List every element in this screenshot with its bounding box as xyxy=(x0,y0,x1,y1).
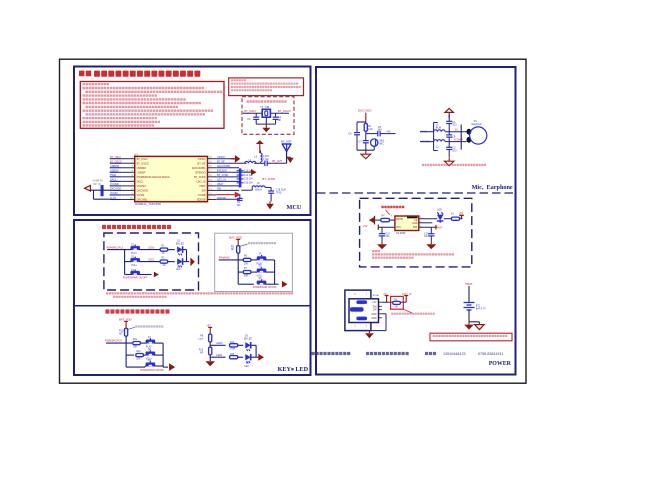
wire mic ground bus xyxy=(357,149,374,151)
USB connector J2 shell xyxy=(345,290,371,331)
svg-text:R12: R12 xyxy=(136,350,141,353)
charger dashed box xyxy=(360,198,472,267)
svg-text:R11: R11 xyxy=(133,338,138,341)
dashed divider between Mic and Power xyxy=(317,192,515,194)
svg-text:NF: NF xyxy=(119,332,123,335)
node LDO_IN label xyxy=(402,292,411,302)
svg-text:0R: 0R xyxy=(395,305,398,308)
node BT_ANT on wire xyxy=(272,159,282,163)
KEY scheme1 dashed box xyxy=(104,233,199,290)
resistor R11 scheme3 row1 xyxy=(133,338,147,349)
annotation text R3 xyxy=(391,313,435,315)
arrow VSSIO xyxy=(235,155,240,163)
svg-text:10K: 10K xyxy=(244,262,249,265)
svg-text:BT_RF: BT_RF xyxy=(198,161,207,165)
wire scheme3 bus xyxy=(106,343,145,367)
inductor L1 xyxy=(245,158,256,163)
svg-text:MIC: MIC xyxy=(387,130,392,133)
decoupling capacitor bank C13-C15 xyxy=(237,169,254,188)
svg-text:10u: 10u xyxy=(424,235,429,238)
svg-text:+5V: +5V xyxy=(459,211,464,215)
svg-text:DAC/VBL: DAC/VBL xyxy=(137,198,148,202)
crystal Y1 label xyxy=(260,105,270,109)
resistor R15 LED row2 xyxy=(230,354,244,359)
svg-text:VOL+: VOL+ xyxy=(131,264,138,267)
svg-text:VSSIO: VSSIO xyxy=(198,157,206,161)
svg-text:MCU: MCU xyxy=(287,204,302,211)
node POWER PAIR label scheme2 xyxy=(253,286,277,289)
svg-text:270R: 270R xyxy=(230,348,236,350)
svg-text:C18 10uF: C18 10uF xyxy=(276,190,287,192)
svg-text:BAT: BAT xyxy=(437,225,442,229)
KEY scheme2 box xyxy=(215,233,293,291)
node BT_ANT label xyxy=(281,139,292,143)
resistor R7 scheme2 row2 xyxy=(243,267,257,278)
ground battery (open) xyxy=(475,322,485,330)
LED D4 xyxy=(244,354,256,368)
svg-text:103: 103 xyxy=(452,149,457,152)
wire LED1 row xyxy=(210,354,225,357)
resistor R4 charge input xyxy=(374,214,395,221)
LED D2 xyxy=(176,258,187,271)
power flag BT RF supply xyxy=(256,140,264,153)
svg-text:PWM/MIC/PLS: PWM/MIC/PLS xyxy=(105,339,122,342)
svg-text:VBAT: VBAT xyxy=(199,184,206,188)
ground USB xyxy=(365,331,374,339)
svg-text:POWER/PAIR ON/OFF: POWER/PAIR ON/OFF xyxy=(140,369,164,372)
resistor R6 scheme2 row1 xyxy=(243,255,257,266)
KEY internal divider line xyxy=(75,305,310,307)
svg-text:KEY: KEY xyxy=(278,366,292,373)
earphone symbol P1 xyxy=(470,120,487,144)
capacitor C9 xyxy=(237,195,243,207)
wire to BT_AVDD arrow xyxy=(241,171,251,173)
capacitor C16 output xyxy=(268,190,286,202)
MCU section box xyxy=(74,67,311,216)
svg-text:U2 4056: U2 4056 xyxy=(396,232,406,235)
svg-text:BT_RF: BT_RF xyxy=(217,161,225,164)
wire USB GND xyxy=(371,314,386,331)
node +5V charger label xyxy=(363,224,379,230)
svg-text:NF: NF xyxy=(278,118,282,122)
resistor R10 pullup scheme3 xyxy=(119,327,135,343)
charger notes text xyxy=(372,250,454,259)
svg-text:1K: 1K xyxy=(163,264,166,267)
ground battery side xyxy=(426,242,436,249)
crystal note box xyxy=(229,78,304,96)
svg-text:Mic, Earphone: Mic, Earphone xyxy=(472,184,513,191)
node +5V LED circuit label xyxy=(206,324,212,334)
svg-text:100uH: 100uH xyxy=(255,189,262,192)
svg-text:10K: 10K xyxy=(136,358,141,361)
svg-text:LED: LED xyxy=(437,209,442,212)
resistor R13 LED circuit xyxy=(199,347,212,361)
wire DAC_VDD stem xyxy=(357,113,366,122)
header J1 (blue bar) xyxy=(101,185,104,196)
svg-text:SW: SW xyxy=(201,189,206,193)
crystal area dashed box xyxy=(242,97,294,135)
antenna BT_ANT xyxy=(282,144,291,163)
svg-text:LED1: LED1 xyxy=(216,354,223,357)
svg-text:VSSIO: VSSIO xyxy=(217,156,225,159)
arrow BT_AVDD xyxy=(251,169,257,175)
svg-text:BAT-3.7V: BAT-3.7V xyxy=(476,307,486,310)
svg-text:LED0: LED0 xyxy=(148,246,155,249)
node VBAT label xyxy=(465,282,473,286)
svg-text:GND: GND xyxy=(371,317,377,320)
arrow scheme1 S3 output xyxy=(154,272,159,278)
wire VSSIO row xyxy=(216,158,235,160)
switch S8 scheme3 xyxy=(146,348,163,361)
node +5V LED label xyxy=(459,211,464,219)
switch S7 scheme3 xyxy=(146,336,163,349)
switch S4 scheme2 xyxy=(257,252,275,265)
jack contact bar xyxy=(460,125,462,150)
arrow 5V input xyxy=(369,216,375,225)
ground crystal xyxy=(262,124,270,132)
power note red box xyxy=(430,333,512,341)
svg-text:BLM: BLM xyxy=(436,126,441,129)
svg-text:PWM/MIC: PWM/MIC xyxy=(219,256,231,259)
svg-text:POWER/PAIR ON/OFF: POWER/PAIR ON/OFF xyxy=(123,277,148,280)
svg-text:DACL: DACL xyxy=(137,179,144,183)
svg-text:2.2K: 2.2K xyxy=(368,128,373,131)
svg-text:10u: 10u xyxy=(386,235,391,238)
node PWM/MIC label scheme3 xyxy=(105,339,122,342)
svg-text:DAC/VDD: DAC/VDD xyxy=(137,189,149,193)
svg-text:LED1: LED1 xyxy=(148,258,155,261)
KEY scheme1 remark text xyxy=(106,292,293,298)
wire CHRG row with pin1 xyxy=(419,217,437,219)
svg-text:0755-83611911: 0755-83611911 xyxy=(478,352,503,356)
wire BAT row xyxy=(419,225,437,227)
Mic Earphone section label xyxy=(472,184,513,191)
inductor L3 (shunt to supply) xyxy=(254,151,269,163)
switch S3 xyxy=(125,269,152,275)
POWER section label xyxy=(489,361,512,367)
node DACL label xyxy=(421,130,428,134)
wire +5V to LDO_IN xyxy=(382,301,406,303)
IC U1 right pins with numbers xyxy=(208,156,217,200)
svg-text:4.7pF: 4.7pF xyxy=(263,158,270,161)
node PHONE-L label xyxy=(455,130,459,132)
wire right rows 3-8 to cap bus xyxy=(216,168,239,191)
node LED1 label scheme1 xyxy=(148,258,155,261)
svg-text:BT_OSCO: BT_OSCO xyxy=(278,109,291,113)
capacitor C3 xyxy=(247,113,259,124)
MCU section label xyxy=(287,204,302,211)
svg-text:USBDP: USBDP xyxy=(137,170,146,174)
svg-text:VCOM: VCOM xyxy=(137,193,145,197)
svg-text:VCC: VCC xyxy=(396,226,401,229)
inductor L1 earphone (bead) xyxy=(434,124,445,132)
svg-text:BT_ANT: BT_ANT xyxy=(281,139,292,143)
svg-text:+5V: +5V xyxy=(363,224,368,228)
svg-text:10K: 10K xyxy=(244,275,249,278)
LED D1 xyxy=(176,240,187,256)
svg-text:5B-LED: 5B-LED xyxy=(244,338,252,340)
USB connector J2 body xyxy=(349,295,382,322)
KEY scheme1 title (red) xyxy=(102,225,171,229)
switch S6 scheme2 xyxy=(257,277,279,285)
annotation pullup scheme3 xyxy=(135,325,163,327)
svg-text:C3: C3 xyxy=(247,117,251,121)
wire LED0 row xyxy=(210,342,225,345)
svg-text:AC6901A_TSSOP28: AC6901A_TSSOP28 xyxy=(135,202,162,206)
svg-text:NF: NF xyxy=(200,351,204,354)
svg-text:L3: L3 xyxy=(254,155,257,159)
node BAT label xyxy=(436,225,443,230)
node PWM/MIC label scheme1 xyxy=(107,247,124,250)
wire CE row xyxy=(419,221,433,223)
capacitor C8 earphone mid xyxy=(446,132,456,142)
ground earphone xyxy=(444,158,454,166)
power flag earphone xyxy=(445,108,453,118)
svg-text:BT_OSCO: BT_OSCO xyxy=(137,161,149,165)
resistor R7 LED series xyxy=(444,213,463,221)
svg-text:MIC: MIC xyxy=(379,143,384,146)
node BAT_VDD label scheme2 xyxy=(229,236,242,246)
KEY scheme3 title (red) xyxy=(105,309,169,313)
design notes box xyxy=(80,82,224,129)
bracket earphone left group xyxy=(434,123,438,151)
wire scheme1 LED join xyxy=(187,250,190,262)
wire earphone left channel xyxy=(420,132,467,142)
svg-text:103: 103 xyxy=(452,124,457,127)
svg-text:USBDM: USBDM xyxy=(137,166,146,170)
svg-text:C16 104: C16 104 xyxy=(244,183,253,185)
LED D3 xyxy=(244,335,256,351)
capacitor C2 earphone bottom xyxy=(446,142,457,158)
svg-text:5B-LED: 5B-LED xyxy=(176,243,184,245)
node BAT_VDD label scheme3 xyxy=(119,318,132,328)
resistor R14 LED row1 xyxy=(230,342,244,351)
capacitor C10 charger input xyxy=(379,227,391,242)
node BT_OSCO xyxy=(278,109,291,113)
arrow scheme1 output xyxy=(190,257,194,266)
node LED0 label scheme1 xyxy=(148,246,155,249)
resistor R8 LED circuit xyxy=(198,334,212,347)
svg-text:VBAT: VBAT xyxy=(465,282,473,286)
svg-text:BT_OSCI: BT_OSCI xyxy=(137,157,148,161)
svg-text:ADC15/PB1: ADC15/PB1 xyxy=(192,166,206,170)
node +5V USB label xyxy=(383,292,389,302)
svg-text:C15 104: C15 104 xyxy=(244,179,253,181)
svg-text:BT_OSCI: BT_OSCI xyxy=(244,109,256,113)
arrow scheme2 output xyxy=(282,281,288,288)
svg-text:VCOM-R: VCOM-R xyxy=(454,140,464,142)
svg-text:GND: GND xyxy=(412,222,418,225)
svg-text:C14 1uF: C14 1uF xyxy=(244,175,253,177)
svg-text:SDDSB: SDDSB xyxy=(197,198,206,202)
wire scheme1 bus xyxy=(107,250,126,275)
svg-text:GND: GND xyxy=(371,313,377,316)
switch S2 xyxy=(125,256,161,268)
ground LED circuit xyxy=(205,361,215,366)
KEY LED section label xyxy=(278,366,309,373)
arrow scheme3 output xyxy=(169,363,175,371)
svg-text:VUSB 5V: VUSB 5V xyxy=(92,179,103,182)
svg-text:TF35: TF35 xyxy=(276,192,282,194)
sheet border frame xyxy=(60,59,527,383)
capacitor C7 mic decouple xyxy=(358,134,368,151)
svg-text:BT_ANT: BT_ANT xyxy=(272,159,282,163)
earphone note text xyxy=(422,164,486,166)
svg-text:1K: 1K xyxy=(162,252,165,255)
ground charger input xyxy=(377,242,387,249)
svg-text:Earphone: Earphone xyxy=(472,123,483,126)
svg-text:PCMB: PCMB xyxy=(198,193,206,197)
node BT_OSCI xyxy=(244,109,256,113)
node BT_AVDD label xyxy=(262,177,275,181)
resistor R5 pullup scheme2 xyxy=(231,244,248,260)
KEY section box xyxy=(74,220,311,375)
svg-text:DP_IN: DP_IN xyxy=(94,183,102,186)
wire LED join xyxy=(256,345,258,357)
resistor R1 scheme1 xyxy=(160,245,175,256)
LED1 charge indicator xyxy=(437,209,444,223)
svg-text:13510448123: 13510448123 xyxy=(443,352,466,356)
arrow LED output xyxy=(258,354,264,361)
battery BT1 xyxy=(464,286,487,322)
svg-text:LED: LED xyxy=(176,269,181,271)
wire left pin rows xyxy=(110,159,122,200)
wire RF net xyxy=(216,162,286,163)
capacitor C11 battery side xyxy=(424,227,435,242)
capacitor C5 mic coupling xyxy=(366,126,396,137)
node PHONE-R label xyxy=(454,140,464,142)
svg-text:NF: NF xyxy=(231,248,235,251)
svg-text:PROB: PROB xyxy=(396,218,403,221)
svg-text:BT_AVDD: BT_AVDD xyxy=(262,177,275,181)
inductor L2 earphone (bead) xyxy=(434,140,445,149)
wire scheme2 bus xyxy=(219,260,254,284)
resistor R3 0R with annotation box xyxy=(391,296,412,313)
antenna termination arrow xyxy=(287,157,294,163)
svg-text:BTEN/IO: BTEN/IO xyxy=(195,170,205,174)
svg-text:BT_AVDD: BT_AVDD xyxy=(194,175,206,179)
right pin net labels xyxy=(217,156,231,200)
svg-text:POWER/PAIR ON/OFF: POWER/PAIR ON/OFF xyxy=(253,286,277,289)
left pin net labels xyxy=(110,156,122,200)
node DAC_VDD label xyxy=(358,109,372,113)
svg-text:LED: LED xyxy=(295,366,308,373)
svg-text:+5V: +5V xyxy=(372,301,377,304)
svg-text:PWM/MIC/PLS/AUX/LAD/CA: PWM/MIC/PLS/AUX/LAD/CA xyxy=(137,175,170,179)
microphone MK1 xyxy=(366,139,385,150)
annotation pullup scheme2 xyxy=(248,242,276,244)
resistor R2 scheme1 xyxy=(160,257,175,268)
IC U1 MCU xyxy=(134,152,207,206)
ground SW output xyxy=(266,202,274,210)
wire SW net xyxy=(241,187,271,191)
MCU section title (Chinese, red) xyxy=(79,71,200,77)
right section box (Mic/Earphone + Power) xyxy=(316,67,516,375)
inductor L5 on SW net xyxy=(252,182,265,192)
resistor R12 scheme3 row2 xyxy=(136,350,147,361)
svg-text:LED: LED xyxy=(244,366,249,368)
svg-text:VCOM0: VCOM0 xyxy=(137,184,147,188)
svg-text:10K: 10K xyxy=(133,346,138,349)
resistor R6 mic bias xyxy=(364,122,373,134)
wire VUSB rows xyxy=(90,190,109,199)
switch S5 scheme2 xyxy=(257,265,275,278)
IC U1 left pins with numbers xyxy=(121,156,135,200)
ground battery (filled) xyxy=(464,322,474,330)
wire VBAT red row xyxy=(216,192,241,198)
wire crystal ground bus xyxy=(256,117,275,124)
capacitor C6 (RF series) xyxy=(265,161,267,167)
crystal area note text xyxy=(247,100,287,103)
node POWER PAIR label scheme1 xyxy=(123,277,148,280)
svg-text:DAC/VDD: DAC/VDD xyxy=(358,109,372,113)
svg-text:BAT: BAT xyxy=(413,226,418,229)
IC U2 charger xyxy=(395,216,419,235)
svg-text:R9 NF: R9 NF xyxy=(373,295,380,297)
wire scheme2 right join xyxy=(274,260,276,284)
node PWM/MIC label scheme2 xyxy=(219,256,231,259)
svg-text:LED0: LED0 xyxy=(216,342,223,345)
svg-text:POWER: POWER xyxy=(489,361,512,367)
footer company text xyxy=(312,352,504,356)
connector/diode VUSB input xyxy=(85,179,104,191)
switch S9 scheme3 xyxy=(145,359,163,366)
svg-text:LDO_IN: LDO_IN xyxy=(196,179,205,183)
capacitor C4 xyxy=(273,113,282,124)
earphone jack contacts xyxy=(467,129,472,143)
switch S1 xyxy=(125,244,161,256)
ground mic xyxy=(361,150,371,158)
crystal Y1 xyxy=(243,109,289,117)
capacitor C1 earphone top xyxy=(446,114,457,131)
IC U1 pin names (inside) xyxy=(137,157,207,202)
wire VCC row xyxy=(378,226,395,228)
wire bottom long row xyxy=(216,198,240,200)
charger circuit title (red) xyxy=(381,206,404,215)
node DACR label xyxy=(421,140,431,144)
capacitor C-left mic filter xyxy=(348,122,360,150)
svg-text:DP: DP xyxy=(373,309,377,312)
wire scheme3 right join xyxy=(145,343,168,367)
node POWER PAIR label scheme3 xyxy=(140,369,164,372)
